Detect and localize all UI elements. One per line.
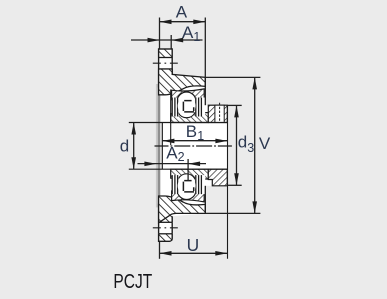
inner ring back face line across bore	[161, 123, 163, 170]
svg-text:2: 2	[178, 150, 185, 164]
A2 outside arrows	[144, 162, 156, 167]
A dim line	[160, 21, 206, 23]
flange plate section (bottom part)	[159, 198, 173, 242]
housing bottom band + transition	[159, 196, 206, 223]
seal left top	[172, 98, 179, 117]
bolt hole top (white)	[158, 58, 174, 70]
svg-text:d: d	[120, 136, 129, 155]
A2 right stub	[187, 159, 189, 181]
B1 arrows	[162, 139, 174, 144]
seal right top	[195, 98, 205, 117]
seal right bottom	[195, 175, 205, 194]
V dim line	[254, 77, 256, 213]
svg-text:A: A	[176, 2, 188, 21]
B1 dim line	[162, 140, 227, 142]
A1 right extension	[170, 35, 172, 49]
A1 dim line	[131, 39, 203, 41]
housing front face	[204, 77, 206, 105]
svg-text:1: 1	[193, 30, 200, 44]
collar block top	[208, 105, 227, 122]
d arrows	[131, 123, 136, 135]
set screw window top	[215, 105, 224, 122]
V arrows	[252, 77, 257, 89]
svg-text:V: V	[259, 134, 271, 153]
bore lines (d extension)	[129, 122, 228, 124]
svg-text:A: A	[182, 23, 194, 42]
A2 dim line	[138, 163, 207, 165]
set screw dashed line	[219, 103, 221, 123]
svg-text:3: 3	[247, 141, 254, 155]
A arrows	[160, 20, 172, 25]
white interior: flange strip	[159, 49, 173, 241]
collar right edge / B1 extension line	[227, 105, 229, 258]
white interior of drawing (bore band)	[160, 123, 227, 170]
A1 outside arrows	[148, 38, 160, 43]
d3 dim line	[236, 105, 238, 185]
flange front face line (seal zone through upper bore area)	[170, 90, 172, 146]
white interior: collar zone	[205, 105, 227, 186]
outer ring top	[172, 89, 205, 100]
V extension lines	[206, 76, 260, 78]
collar block bottom	[208, 169, 227, 186]
svg-text:d: d	[238, 133, 247, 152]
center mark bolt hole top	[153, 62, 178, 64]
center mark bolt hole bottom	[153, 227, 178, 229]
ball bottom	[178, 177, 196, 195]
svg-text:1: 1	[197, 129, 204, 143]
svg-text:PCJT: PCJT	[113, 270, 152, 293]
U dim line	[160, 252, 228, 254]
white interior: housing silhouette	[172, 74, 205, 216]
housing top band + transition	[159, 69, 206, 95]
arrowheads	[131, 20, 257, 256]
d3 arrows	[234, 105, 239, 117]
U extension lines	[159, 242, 161, 259]
inner ring bottom	[171, 169, 209, 179]
svg-text:U: U	[187, 235, 200, 255]
U arrows	[160, 251, 172, 256]
inner ring top	[171, 113, 209, 123]
ball top	[178, 97, 196, 115]
d3 extension lines	[228, 104, 242, 106]
A extension lines	[159, 18, 161, 49]
white column behind flange (inner ring protrusion zone)	[160, 87, 171, 205]
flange plate section (top part)	[159, 48, 173, 93]
main axis dash-dot	[155, 145, 232, 147]
d dim line	[133, 123, 135, 170]
svg-text:A: A	[166, 143, 178, 162]
outer ring bottom	[172, 191, 205, 202]
gray hidden back-face line of flange	[156, 84, 158, 207]
seal left bottom	[172, 175, 179, 194]
bolt hole bottom (white)	[158, 222, 174, 234]
svg-text:B: B	[186, 122, 197, 141]
